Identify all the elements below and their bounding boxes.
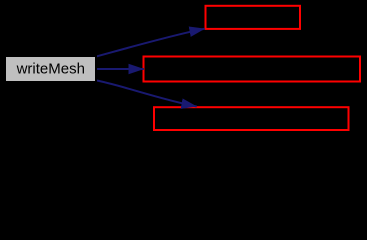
node U3 middle truncated box (label hidden: black on black) <box>144 57 361 82</box>
wire: call edge writeMesh -> bottom box <box>95 80 197 106</box>
node U4 bottom truncated box (label hidden: black on black) <box>154 107 349 130</box>
svg-text:writeMesh: writeMesh <box>16 61 85 78</box>
node U1 writeMesh <box>5 56 96 82</box>
wire: call edge writeMesh -> middle box <box>95 68 144 70</box>
wire: call edge writeMesh -> top box <box>95 29 205 57</box>
node U2 top truncated box (label hidden: black on black) <box>206 6 301 29</box>
